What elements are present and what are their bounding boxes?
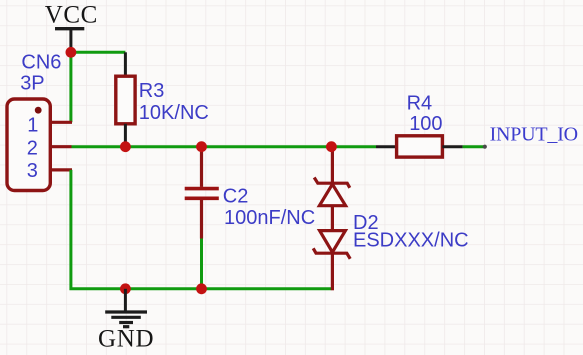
resistor R4 right lead <box>442 145 462 148</box>
wire R4 to INPUT_IO <box>463 145 485 148</box>
capacitor C2 bottom lead <box>200 200 203 239</box>
resistor R4 body <box>397 136 443 157</box>
resistor R3 top lead <box>124 52 127 76</box>
svg-text:100: 100 <box>409 113 442 135</box>
pin 1 stub <box>50 121 72 124</box>
wire C2 to bottom net <box>200 239 203 289</box>
diode D2 lower zener bar <box>313 248 350 258</box>
wire pin3 down and along bottom <box>71 170 331 289</box>
junction C2 bottom <box>196 283 207 294</box>
svg-text:GND: GND <box>98 325 154 352</box>
diode D2 upper triangle <box>319 184 345 206</box>
junction GND tap <box>120 283 131 294</box>
svg-text:R3: R3 <box>139 80 165 102</box>
power symbol VCC bar <box>55 29 84 53</box>
svg-text:INPUT_IO: INPUT_IO <box>490 123 578 145</box>
svg-text:R4: R4 <box>407 93 433 115</box>
node INPUT_IO endpoint <box>483 145 487 149</box>
svg-text:VCC: VCC <box>45 1 98 28</box>
svg-text:100nF/NC: 100nF/NC <box>224 207 315 229</box>
resistor R4 left lead <box>376 145 397 148</box>
pin 2 stub <box>50 145 71 148</box>
diode D2 bottom lead <box>331 253 334 290</box>
diode D2 lower triangle <box>320 231 346 253</box>
svg-text:C2: C2 <box>223 185 249 207</box>
junction D2/pin2 <box>326 141 337 152</box>
capacitor C2 plates <box>185 189 219 199</box>
svg-text:10K/NC: 10K/NC <box>139 102 209 124</box>
svg-text:2: 2 <box>27 138 38 160</box>
connector CN6 body <box>7 99 50 191</box>
junction C2 top <box>196 141 207 152</box>
resistor R3 body <box>116 76 135 124</box>
wire pin2 net horizontal <box>72 145 377 148</box>
svg-text:1: 1 <box>27 115 38 137</box>
ground symbol stem <box>124 289 127 311</box>
ground symbol bars <box>105 312 147 327</box>
resistor R3 bottom lead <box>124 124 127 147</box>
junction R3/pin2 <box>120 141 131 152</box>
wire VCC dot down to pin 1 <box>69 52 72 122</box>
capacitor C2 top lead <box>200 147 203 187</box>
diode D2 upper zener bar <box>314 178 350 188</box>
connector CN6 pin-1 marker dot <box>35 107 42 114</box>
svg-text:ESDXXX/NC: ESDXXX/NC <box>353 230 469 252</box>
svg-text:3P: 3P <box>20 73 44 95</box>
junction VCC node <box>66 47 77 58</box>
wire VCC dot to R3 top <box>71 51 126 54</box>
diode D2 top lead <box>331 147 334 184</box>
diode D2 middle lead <box>331 206 334 231</box>
svg-text:CN6: CN6 <box>21 52 61 74</box>
svg-text:3: 3 <box>27 160 38 182</box>
pin 3 stub <box>50 168 72 171</box>
